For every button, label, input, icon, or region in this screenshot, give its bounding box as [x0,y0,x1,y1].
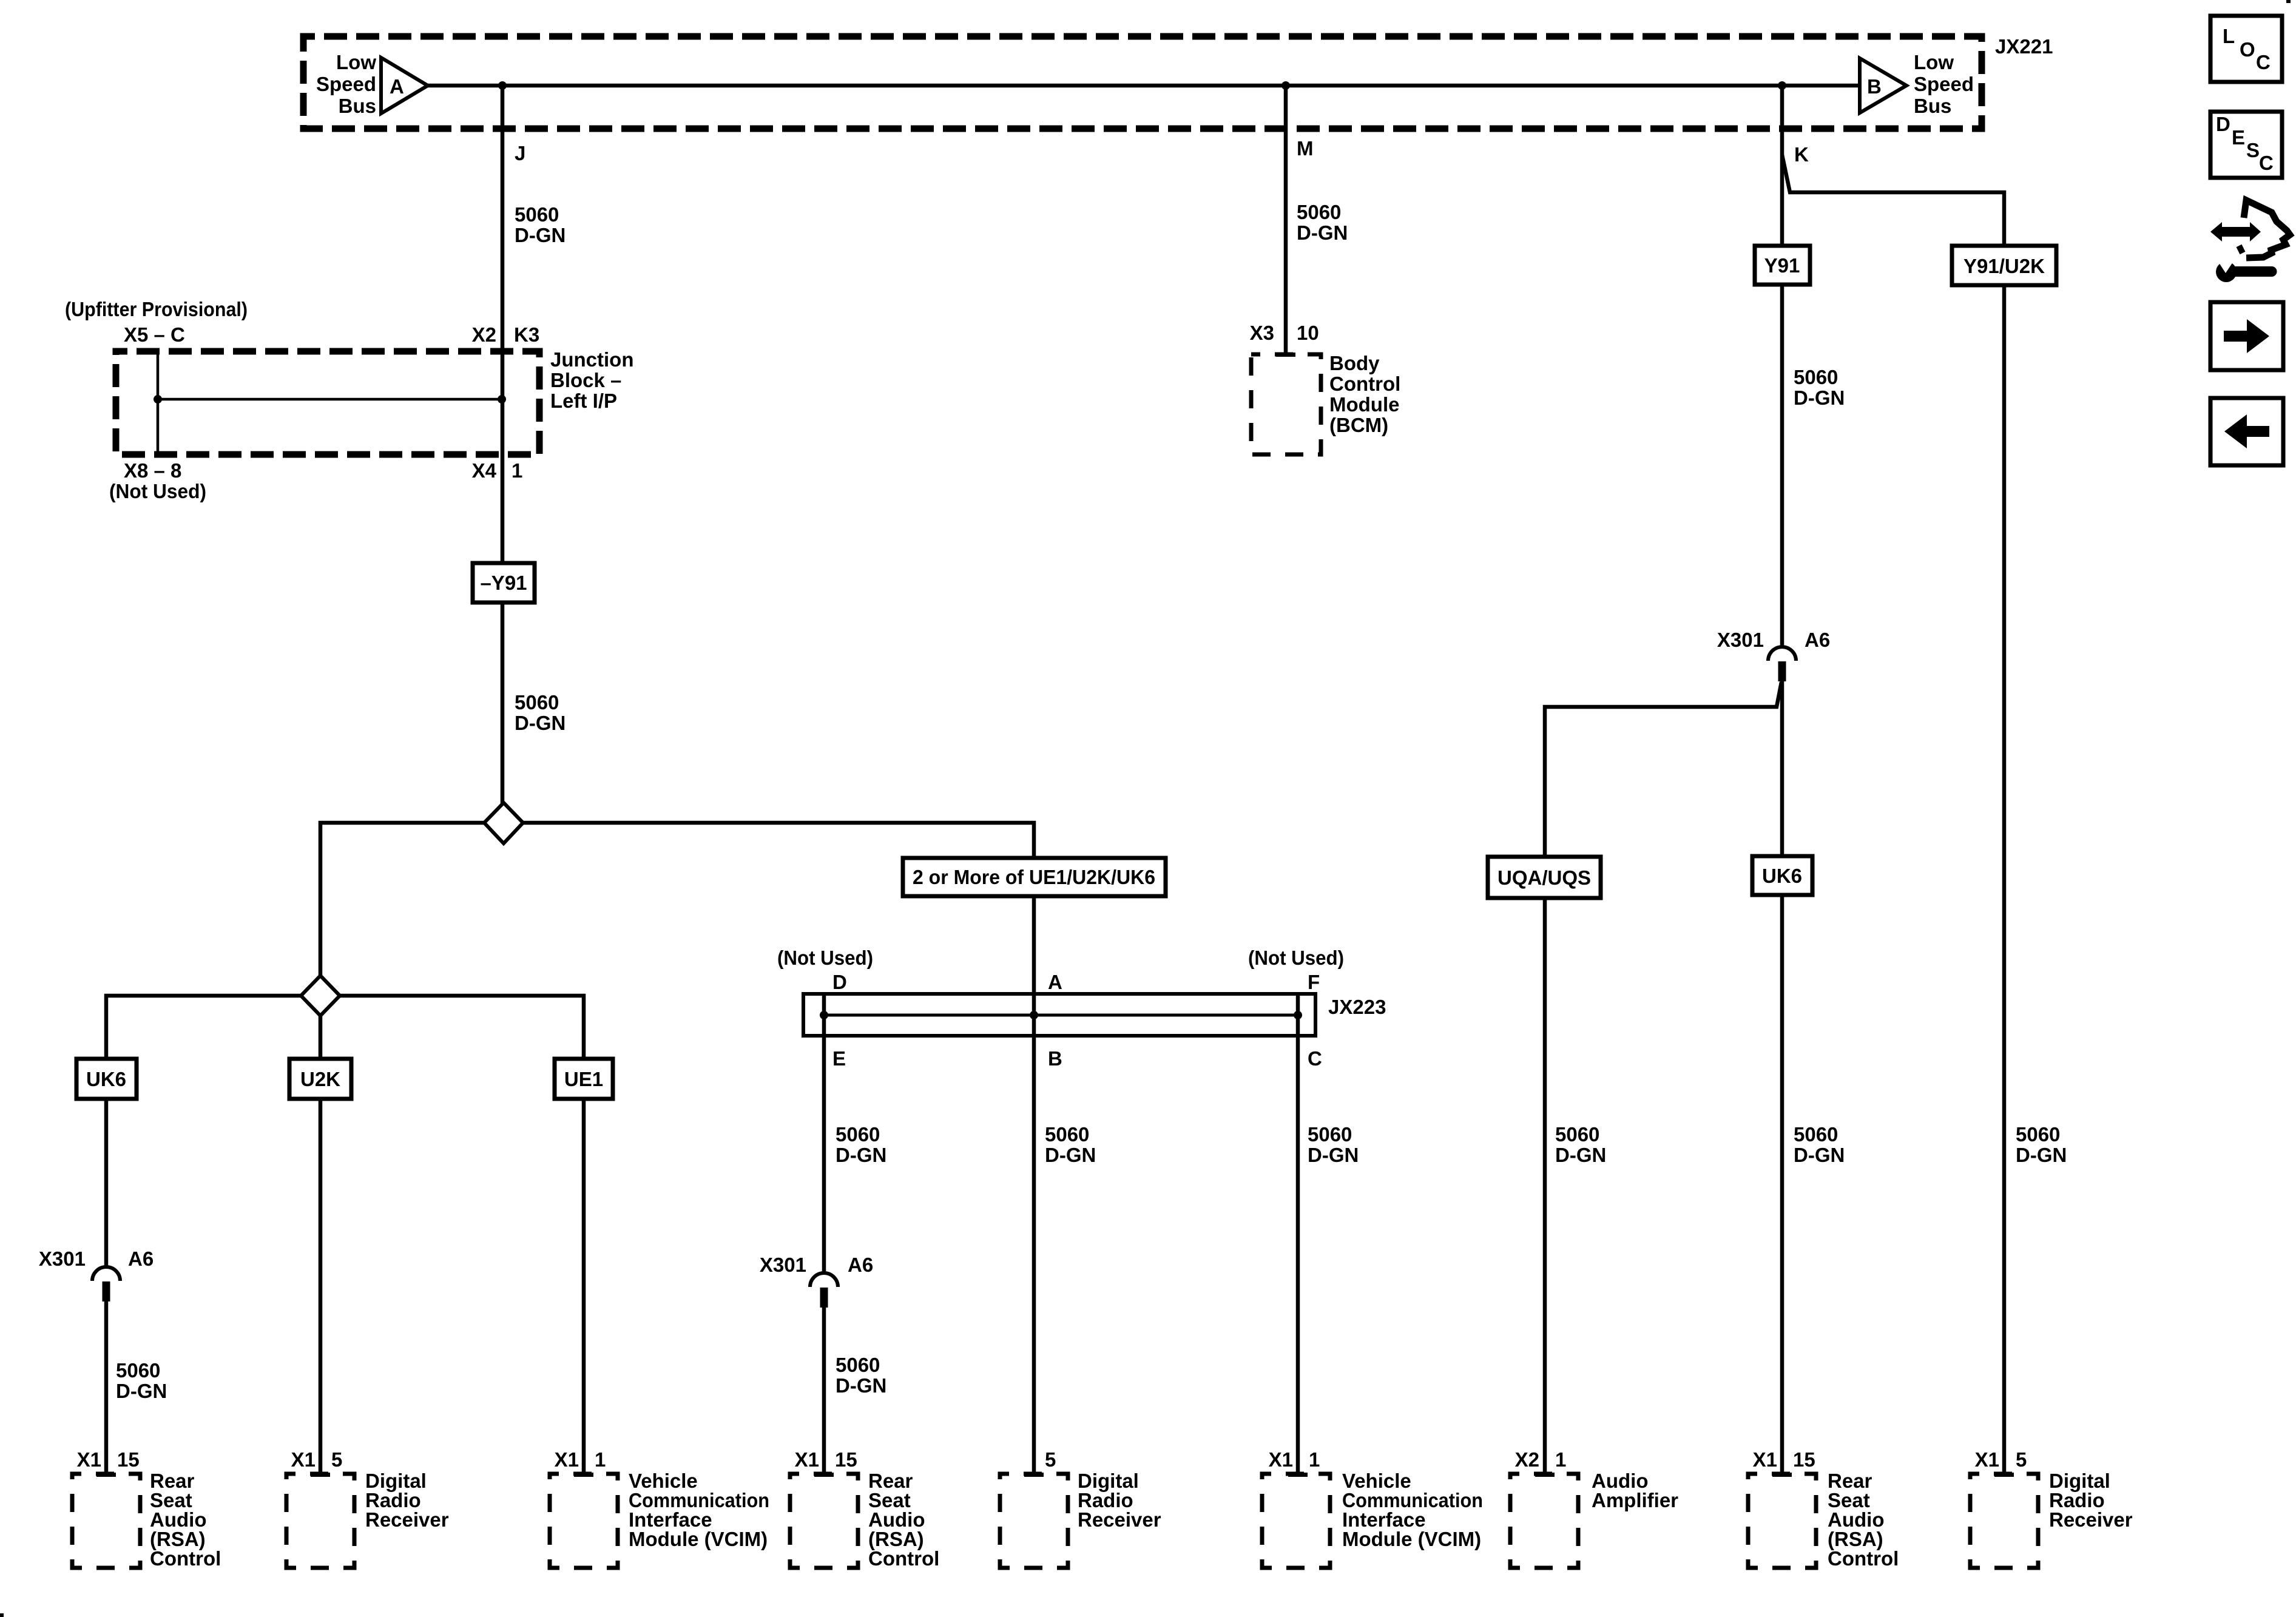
wire D/E through JX223 [822,996,826,1274]
connector X301 pin A6 (middle) [810,1273,838,1308]
wire M drop (5060 D-GN) [1276,86,1295,357]
label Low Speed Bus (right) [1914,51,1974,117]
wire diamond1 to 2-or-more box [523,823,1034,859]
wire K branch to Y91/U2K [1782,155,2004,247]
label Junction Block - Left I/P [550,348,634,412]
label M [1297,137,1314,160]
labels X301 A6 (middle) [760,1254,873,1276]
component VCIM (right) dashed box [1262,1474,1330,1568]
svg-text:C: C [1308,1047,1322,1070]
pin label 5 (DRR middle) [1045,1448,1056,1471]
wire label 5060 D-GN (Y91/U2K column) [2016,1123,2067,1166]
wire X301 branch to UQA/UQS [1545,682,1781,858]
label Digital Radio Receiver (middle) [1078,1470,1161,1531]
pin labels X1 1 (VCIM right) [1269,1448,1320,1471]
wire label 5060 D-GN (C column) [1308,1123,1359,1166]
junction dot node K [1778,81,1786,90]
junction dot node M [1281,81,1290,90]
sidebar DESC button [2210,112,2282,178]
pin labels X1 1 (VCIM left) [555,1448,606,1471]
wire X301 to RSA control (middle) [814,1308,834,1477]
svg-text:5060: 5060 [515,691,559,714]
svg-text:(Not Used): (Not Used) [109,480,206,502]
option box UE1 [555,1059,613,1099]
pin labels X1 5 (DRR right) [1975,1448,2027,1471]
svg-text:1: 1 [1309,1448,1320,1471]
svg-text:Module: Module [1329,393,1399,416]
option box U2K [289,1059,351,1099]
wire label 5060 D-GN (J top) [515,203,566,246]
wire UE1 to VCIM [574,1098,593,1477]
wire label 5060 D-GN (B column) [1045,1123,1096,1166]
svg-text:5060: 5060 [1045,1123,1089,1146]
wire U2K to digital radio receiver [311,1098,330,1477]
svg-text:UK6: UK6 [1762,865,1802,887]
svg-text:5: 5 [2016,1448,2027,1471]
svg-text:X5 – C: X5 – C [124,323,185,346]
option box UK6 (left) [76,1059,137,1099]
label pin E [832,1047,846,1070]
svg-text:D: D [2216,113,2230,135]
svg-text:Y91: Y91 [1764,254,1800,277]
svg-text:1: 1 [1555,1448,1566,1471]
wire X301 down to UK6 (right) [1780,681,1784,857]
wire label 5060 D-GN (UK6 column) [116,1359,167,1402]
svg-text:Control: Control [868,1547,939,1570]
svg-text:Amplifier: Amplifier [1592,1489,1678,1511]
svg-text:O: O [2240,38,2255,61]
svg-text:Low: Low [1914,51,1954,73]
svg-text:D-GN: D-GN [1045,1144,1096,1166]
bus connector triangle A [381,58,428,113]
wire Y91 down to X301 [1780,285,1784,648]
wire diamond2 to UE1 [340,996,584,1060]
label Audio Amplifier [1592,1470,1678,1511]
svg-text:A6: A6 [1805,629,1830,651]
svg-text:X1: X1 [555,1448,579,1471]
svg-text:5060: 5060 [836,1123,880,1146]
wire label 5060 D-GN (Y91 column) [1794,366,1845,409]
svg-text:Receiver: Receiver [365,1508,449,1531]
pin labels X3 10 (BCM) [1250,322,1319,344]
label J [515,142,525,164]
svg-text:A: A [390,75,404,98]
wire diamond1 to diamond2 [320,823,484,977]
pin labels X4 1 [472,459,523,482]
pin labels X1 5 (DRR left) [291,1448,343,1471]
wire diamond2 to U2K [319,1016,323,1060]
svg-text:D-GN: D-GN [1794,387,1845,409]
svg-text:5060: 5060 [1794,366,1838,388]
svg-text:Block –: Block – [550,369,621,391]
svg-text:Bus: Bus [339,95,376,117]
wire label 5060 D-GN (E column) [836,1123,886,1166]
svg-text:X3: X3 [1250,322,1274,344]
JX223 internal bus wire [824,1014,1298,1017]
svg-text:A6: A6 [848,1254,873,1276]
label (Upfitter Provisional) [65,298,248,320]
option box 2 or More of UE1/U2K/UK6 [903,858,1166,896]
svg-text:E: E [2232,126,2245,149]
label Low Speed Bus (left) [316,51,376,117]
connector X301 pin A6 (right) [1768,647,1796,681]
svg-text:X301: X301 [1717,629,1764,651]
component Digital Radio Receiver (middle) dashed box [1000,1474,1068,1568]
splice diamond 2 [301,976,340,1016]
JX223 node dots [820,1011,1302,1019]
svg-text:(Upfitter Provisional): (Upfitter Provisional) [65,298,248,320]
svg-text:D: D [832,971,847,993]
svg-text:K3: K3 [514,323,539,346]
svg-text:JX223: JX223 [1328,996,1386,1018]
svg-text:B: B [1867,75,1882,98]
svg-text:Body: Body [1329,352,1380,374]
svg-text:X1: X1 [291,1448,316,1471]
sidebar wiring repair icon [2210,200,2290,282]
bus wire (Low Speed Bus) [428,84,1860,88]
svg-text:Control: Control [150,1547,221,1570]
svg-text:X1: X1 [77,1448,101,1471]
label Rear Seat Audio (RSA) Control (right) [1828,1470,1899,1570]
svg-text:5060: 5060 [1794,1123,1838,1146]
wire A drop through JX223 to DRR [1024,896,1044,1477]
splice option box Y91/U2K [1952,246,2056,285]
svg-text:X1: X1 [1753,1448,1777,1471]
svg-text:Y91/U2K: Y91/U2K [1963,255,2045,277]
svg-text:UK6: UK6 [86,1068,126,1090]
wire label 5060 D-GN (M column) [1297,201,1348,244]
svg-text:E: E [832,1047,846,1070]
svg-text:10: 10 [1297,322,1319,344]
wire UQA/UQS to audio amplifier [1535,897,1555,1477]
label Rear Seat Audio (RSA) Control (middle) [868,1470,939,1570]
pin labels X1 15 (RSA middle) [795,1448,857,1471]
component Digital Radio Receiver (right) dashed box [1970,1474,2038,1568]
svg-text:Receiver: Receiver [2049,1508,2133,1531]
svg-text:–Y91: –Y91 [480,572,527,594]
component Rear Seat Audio (RSA) Control (middle) dashed box [790,1474,858,1568]
svg-text:X301: X301 [39,1247,86,1270]
junction dot node J [498,81,507,90]
svg-text:B: B [1048,1047,1062,1070]
svg-text:D-GN: D-GN [515,712,566,734]
svg-text:U2K: U2K [300,1068,340,1090]
label Rear Seat Audio (RSA) Control (left) [150,1470,221,1570]
component Body Control Module dashed box [1251,354,1321,454]
svg-text:Junction: Junction [550,348,634,371]
svg-text:M: M [1297,137,1314,160]
svg-text:C: C [2256,51,2271,73]
svg-text:X1: X1 [795,1448,819,1471]
wire label 5060 D-GN (E column lower) [836,1354,886,1397]
svg-text:5060: 5060 [515,203,559,226]
splice diamond 1 [484,803,523,843]
label (Not Used) pin D [777,947,873,993]
svg-text:X2: X2 [1515,1448,1539,1471]
pin labels X1 15 (RSA right) [1753,1448,1815,1471]
wire label 5060 D-GN (below -Y91) [515,691,566,734]
wire UK6 (right) to RSA control [1772,894,1792,1477]
page corner mark bottom-left [0,1613,4,1617]
svg-text:15: 15 [117,1448,140,1471]
svg-text:S: S [2246,139,2260,161]
svg-text:15: 15 [835,1448,857,1471]
sidebar back arrow button [2210,398,2283,465]
svg-text:JX221: JX221 [1995,35,2053,58]
svg-text:Speed: Speed [1914,73,1974,95]
svg-text:Control: Control [1329,373,1400,395]
svg-text:K: K [1794,143,1809,166]
junction block internal bus wire [158,398,502,401]
svg-text:15: 15 [1793,1448,1815,1471]
splice option box UQA/UQS [1488,857,1601,898]
wire label 5060 D-GN (UK6 right column) [1794,1123,1845,1166]
component Audio Amplifier dashed box [1510,1474,1578,1568]
wire Y91/U2K to digital radio receiver (right) [1994,285,2014,1477]
label Digital Radio Receiver (right) [2049,1470,2133,1531]
svg-text:(BCM): (BCM) [1329,414,1388,436]
svg-text:X8 – 8: X8 – 8 [124,459,181,482]
junction block internal wire X5-C to X8-8 [157,351,160,452]
svg-text:X2: X2 [472,323,496,346]
svg-text:5060: 5060 [2016,1123,2060,1146]
wire X301 to RSA control (5060 D-GN) [96,1301,116,1477]
component Rear Seat Audio (RSA) Control (right) dashed box [1748,1474,1816,1568]
svg-text:5060: 5060 [1297,201,1341,223]
svg-text:5060: 5060 [116,1359,160,1382]
pin label X5 - C [124,323,185,346]
junction block internal node dots [154,395,506,403]
wire K drop to Y91 [1780,86,1784,247]
wire label 5060 D-GN (UQA column) [1555,1123,1606,1166]
page corner mark top-right [2286,0,2291,3]
svg-text:D-GN: D-GN [1297,221,1348,244]
pin label X8 - 8 (Not Used) [109,459,206,502]
svg-text:5060: 5060 [1555,1123,1599,1146]
svg-text:UQA/UQS: UQA/UQS [1497,866,1591,889]
svg-text:D-GN: D-GN [515,224,566,246]
label Digital Radio Receiver (left) [365,1470,449,1531]
label pin A [1048,971,1062,993]
junction block - left I/P dashed box [116,351,539,454]
wire J drop (5060 D-GN) [501,86,505,563]
svg-text:D-GN: D-GN [1555,1144,1606,1166]
svg-text:Bus: Bus [1914,95,1951,117]
svg-text:X1: X1 [1975,1448,1999,1471]
svg-text:Control: Control [1828,1547,1899,1570]
pin labels X2 1 (audio amplifier) [1515,1448,1567,1471]
wire UK6 to connector X301 [104,1098,109,1268]
svg-text:5: 5 [1045,1448,1056,1471]
wire F/C through JX223 [1288,996,1308,1477]
svg-text:1: 1 [512,459,522,482]
svg-text:D-GN: D-GN [836,1144,886,1166]
labels X301 A6 (right) [1717,629,1830,651]
svg-text:Left I/P: Left I/P [550,390,617,412]
label pin C [1308,1047,1322,1070]
option box UK6 (right) [1752,856,1812,895]
label Vehicle Communication Interface Module (left) [629,1470,769,1550]
svg-text:D-GN: D-GN [116,1380,167,1402]
label JX221 [1995,35,2053,58]
bus JX221 dashed box [303,36,1982,129]
svg-text:D-GN: D-GN [1308,1144,1359,1166]
svg-text:UE1: UE1 [564,1068,603,1090]
svg-text:J: J [515,142,525,164]
svg-text:Module (VCIM): Module (VCIM) [629,1528,768,1550]
sidebar forward arrow button [2210,302,2283,370]
component Digital Radio Receiver (left) dashed box [286,1474,354,1568]
pin labels X1 15 (RSA left) [77,1448,140,1471]
label pin B [1048,1047,1062,1070]
svg-text:X1: X1 [1269,1448,1293,1471]
label (Not Used) pin F [1248,947,1344,993]
svg-text:5: 5 [331,1448,342,1471]
svg-text:L: L [2223,25,2235,47]
svg-text:Module (VCIM): Module (VCIM) [1342,1528,1481,1550]
svg-text:A: A [1048,971,1062,993]
svg-text:1: 1 [595,1448,606,1471]
svg-text:5060: 5060 [836,1354,880,1376]
wire diamond2 to UK6 [106,996,301,1060]
svg-text:X301: X301 [760,1254,806,1276]
svg-text:D-GN: D-GN [836,1374,886,1397]
svg-text:2 or More of UE1/U2K/UK6: 2 or More of UE1/U2K/UK6 [913,866,1155,888]
svg-text:Receiver: Receiver [1078,1508,1161,1531]
svg-text:F: F [1308,971,1320,993]
component VCIM (left) dashed box [550,1474,618,1568]
splice option box -Y91 [473,563,535,603]
bus connector triangle B [1860,58,1906,113]
splice option box Y91 [1755,246,1810,285]
connector JX223 box [803,994,1315,1036]
svg-text:D-GN: D-GN [2016,1144,2067,1166]
svg-text:(Not Used): (Not Used) [777,947,873,969]
sidebar LOC button [2210,16,2282,82]
wire -Y91 to splice diamond [501,603,505,804]
label JX223 [1328,996,1386,1018]
svg-text:(Not Used): (Not Used) [1248,947,1344,969]
connector X301 pin A6 (left) [92,1267,120,1301]
svg-text:C: C [2259,152,2274,174]
svg-text:5060: 5060 [1308,1123,1352,1146]
svg-text:Low: Low [336,51,376,73]
svg-text:Speed: Speed [316,73,376,95]
svg-text:D-GN: D-GN [1794,1144,1845,1166]
svg-text:A6: A6 [128,1247,154,1270]
component Rear Seat Audio (RSA) Control (left) dashed box [72,1474,140,1568]
label Vehicle Communication Interface Module (right) [1342,1470,1483,1550]
svg-text:X4: X4 [472,459,497,482]
label Body Control Module (BCM) [1329,352,1400,436]
pin labels X2 K3 [472,323,540,346]
labels X301 A6 (left) [39,1247,154,1270]
label K [1794,143,1809,166]
